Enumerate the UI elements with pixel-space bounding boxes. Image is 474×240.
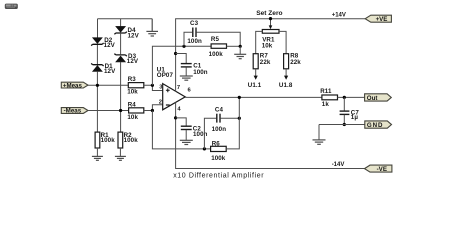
svg-text:12V: 12V bbox=[127, 58, 139, 65]
junction GND row bbox=[343, 123, 346, 126]
wire pin3 feedback node up bbox=[152, 46, 211, 85]
svg-text:100k: 100k bbox=[124, 137, 139, 144]
ground (GND row) bbox=[313, 140, 326, 144]
junction pin2 node bbox=[151, 109, 154, 112]
op-amp U1 bbox=[163, 84, 186, 110]
diode D2 bbox=[91, 38, 103, 46]
wire pin4 rail bbox=[176, 102, 365, 168]
svg-text:-VE: -VE bbox=[377, 166, 387, 173]
junction C2 tap bbox=[174, 116, 177, 119]
svg-text:22k: 22k bbox=[260, 59, 271, 66]
connector -VE bbox=[365, 165, 392, 173]
wire +Meas to R3 bbox=[88, 84, 128, 86]
wire rail1 top bbox=[97, 19, 99, 38]
wire R4 to pin2 node bbox=[144, 105, 163, 111]
svg-text:1k: 1k bbox=[322, 101, 330, 108]
wire VR1 left lead bbox=[256, 31, 263, 53]
wire C2 branch bbox=[176, 118, 187, 126]
resistor R2 bbox=[118, 132, 123, 148]
svg-text:+14V: +14V bbox=[332, 12, 346, 18]
wire C3 row right bbox=[197, 32, 241, 46]
capacitor C1 bbox=[181, 64, 192, 67]
ground (C1) bbox=[180, 76, 193, 80]
wire rail1 mid bbox=[96, 45, 98, 64]
svg-text:1µ: 1µ bbox=[351, 114, 359, 121]
junction output/feedback bbox=[238, 96, 241, 99]
wire R5 right to ground node bbox=[227, 45, 241, 47]
svg-text:22k: 22k bbox=[290, 59, 301, 66]
junction VR1 wiper / +14V rail bbox=[269, 17, 272, 20]
wire R1 to ground bbox=[96, 148, 98, 156]
wire pin7 rail bbox=[176, 19, 366, 92]
svg-text:R6: R6 bbox=[212, 140, 221, 147]
wire ladder left vertical bbox=[184, 32, 192, 46]
logo bbox=[5, 4, 18, 9]
connector -Meas bbox=[61, 108, 88, 115]
svg-text:+VE: +VE bbox=[376, 16, 388, 23]
junction C1 tap bbox=[174, 52, 177, 55]
junction feedback/C4 bbox=[238, 117, 241, 120]
svg-text:-14V: -14V bbox=[332, 162, 345, 168]
junction ladder left (R6/C4) bbox=[203, 147, 206, 150]
wire C1 to ground bbox=[185, 67, 187, 75]
ground (R2) bbox=[115, 156, 126, 160]
svg-text:U1.1: U1.1 bbox=[248, 82, 262, 89]
svg-text:100k: 100k bbox=[211, 155, 226, 162]
svg-text:100n: 100n bbox=[193, 131, 208, 138]
junction pin3 node bbox=[151, 84, 154, 87]
capacitor C7 bbox=[340, 111, 350, 114]
wire R7 to pin1 arrow bbox=[254, 69, 258, 80]
wire down to ground bbox=[239, 46, 241, 54]
junction R5/C3 ground node bbox=[239, 45, 242, 48]
wire R8 to pin8 arrow bbox=[284, 69, 288, 80]
diode D1 bbox=[91, 63, 103, 71]
wire -Meas to R4 bbox=[88, 110, 129, 112]
wire ladder left vertical up bbox=[204, 118, 216, 149]
svg-text:10k: 10k bbox=[262, 43, 273, 50]
diode D3 bbox=[114, 54, 126, 62]
resistor R3 bbox=[128, 83, 144, 88]
svg-text:12V: 12V bbox=[104, 42, 116, 49]
ground (clamp top) bbox=[146, 19, 158, 36]
svg-text:4: 4 bbox=[177, 107, 181, 113]
wire pin2 node down bbox=[152, 111, 210, 149]
capacitor C4 bbox=[217, 114, 220, 123]
junction +Meas/rail1 bbox=[96, 84, 99, 87]
resistor R1 bbox=[95, 132, 100, 148]
svg-text:C3: C3 bbox=[190, 20, 199, 27]
svg-text:GND: GND bbox=[367, 122, 383, 129]
svg-text:+Meas: +Meas bbox=[63, 82, 83, 89]
ground (C2) bbox=[180, 140, 193, 144]
potentiometer VR1 bbox=[262, 19, 279, 34]
wire VR1 right lead bbox=[279, 31, 286, 53]
junction C7 top bbox=[343, 96, 346, 99]
svg-text:R11: R11 bbox=[320, 88, 332, 95]
wire rail2 mid bbox=[120, 34, 122, 55]
wire R6 right up to output bbox=[226, 97, 239, 148]
connector +Meas bbox=[61, 82, 88, 89]
svg-text:10k: 10k bbox=[127, 89, 138, 96]
wire R2 to ground bbox=[119, 148, 121, 156]
junction ladder left (R5/C3) bbox=[182, 45, 185, 48]
svg-text:OP07: OP07 bbox=[157, 72, 174, 79]
connector Out bbox=[365, 94, 392, 102]
junction -Meas/rail2 bbox=[119, 109, 122, 112]
ground (R5/C3) bbox=[234, 54, 246, 58]
svg-text:10k: 10k bbox=[127, 114, 138, 121]
svg-text:100k: 100k bbox=[209, 51, 224, 58]
resistor R4 bbox=[129, 108, 144, 113]
svg-text:6: 6 bbox=[188, 88, 192, 94]
svg-text:2: 2 bbox=[159, 99, 162, 105]
resistor R7 bbox=[253, 54, 258, 69]
wire C7 bottom to GND row bbox=[343, 115, 345, 125]
svg-text:C4: C4 bbox=[215, 107, 224, 114]
svg-text:Set Zero: Set Zero bbox=[256, 10, 282, 17]
svg-text:R4: R4 bbox=[128, 102, 137, 109]
svg-text:12V: 12V bbox=[128, 32, 140, 39]
svg-text:100k: 100k bbox=[101, 137, 116, 144]
wire top clamp rail bbox=[98, 18, 153, 20]
connector GND bbox=[365, 121, 392, 129]
capacitor C3 bbox=[193, 28, 196, 38]
wire C1 branch bbox=[176, 54, 187, 64]
svg-text:x10 Differential Amplifier: x10 Differential Amplifier bbox=[173, 173, 264, 180]
svg-text:100n: 100n bbox=[187, 38, 202, 45]
wire rail2 to -Meas bbox=[120, 62, 122, 132]
svg-text:U1.8: U1.8 bbox=[279, 82, 293, 89]
wire GND drop bbox=[318, 125, 320, 140]
resistor R8 bbox=[284, 54, 289, 69]
wire GND row bbox=[319, 124, 365, 126]
wire R11 to Out bbox=[338, 96, 365, 98]
svg-text:100n: 100n bbox=[193, 69, 208, 76]
resistor R5 bbox=[211, 44, 226, 48]
wire rail2 top bbox=[120, 19, 122, 27]
resistor R6 bbox=[211, 146, 227, 151]
svg-text:12V: 12V bbox=[104, 68, 116, 75]
resistor R11 bbox=[322, 95, 338, 100]
wire rail1 to +Meas bbox=[96, 71, 98, 132]
diode D4 bbox=[114, 26, 126, 34]
wire R3 to pin3 node bbox=[144, 85, 163, 90]
svg-text:100n: 100n bbox=[212, 126, 227, 133]
svg-text:Out: Out bbox=[367, 95, 378, 102]
svg-text:R5: R5 bbox=[211, 36, 220, 43]
wire C7 stem top bbox=[343, 97, 345, 110]
wire C4 row right bbox=[221, 117, 240, 119]
svg-text:R3: R3 bbox=[128, 76, 137, 83]
ground (R1) bbox=[92, 156, 103, 160]
svg-text:-Meas: -Meas bbox=[64, 108, 82, 115]
wire output bbox=[185, 96, 322, 98]
wire C2 to ground bbox=[185, 130, 187, 140]
capacitor C2 bbox=[181, 126, 192, 129]
svg-text:7: 7 bbox=[177, 85, 180, 91]
connector +VE bbox=[365, 15, 391, 23]
